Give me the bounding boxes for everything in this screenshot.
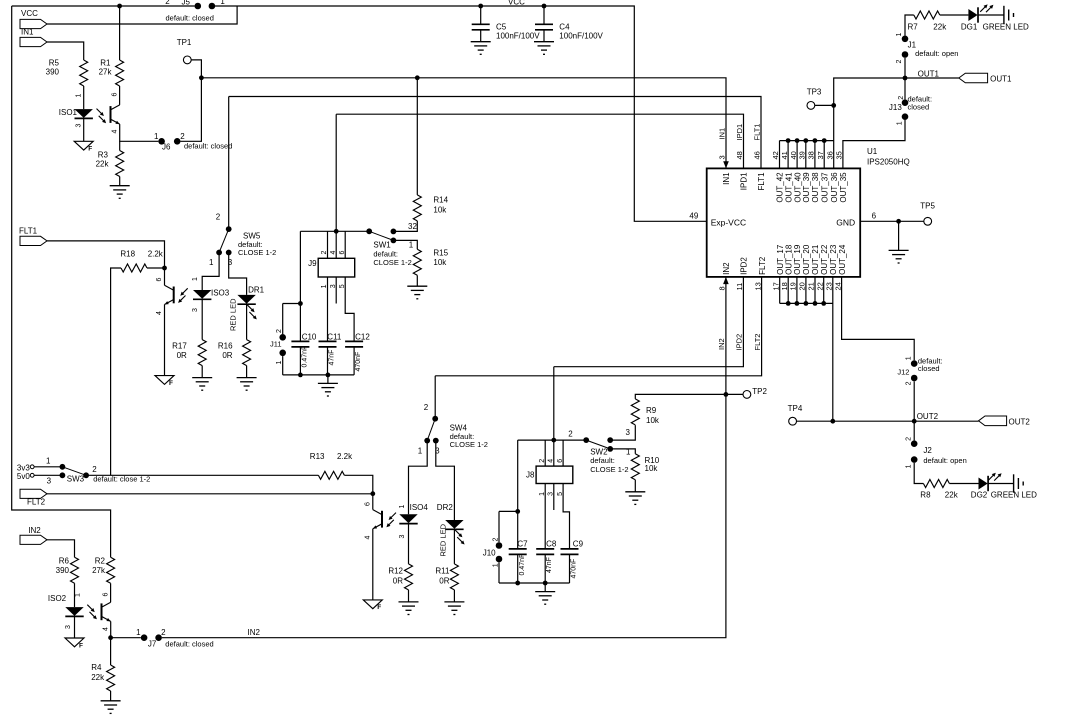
svg-text:OUT_36: OUT_36: [830, 172, 839, 203]
svg-text:4: 4: [365, 536, 372, 540]
svg-text:TP5: TP5: [920, 202, 935, 211]
svg-text:TP4: TP4: [788, 404, 803, 413]
wire pin36 riser to OUT1 net: [834, 78, 905, 168]
resistor R1 27k: [116, 60, 124, 86]
wire SW5 pin 3 to DR1: [229, 253, 247, 295]
wire VCC top rail left segment (to jumper J5 pad 2): [12, 5, 195, 7]
wire J9 pin5 to C12: [345, 277, 354, 341]
wire FLT1 net from SW5 to U1 pin 46: [229, 97, 761, 169]
wire FLT1 to ISO3 collector node: [47, 241, 165, 268]
wire SW5 pin 1 to ISO3 LED: [202, 253, 219, 291]
svg-text:390: 390: [56, 566, 70, 575]
svg-text:default: closed: default: closed: [165, 640, 213, 649]
wire R6 to ISO2 LED: [74, 583, 76, 607]
svg-text:FLT2: FLT2: [753, 334, 762, 351]
jumper J2: [913, 421, 915, 440]
svg-text:OUT1: OUT1: [990, 75, 1012, 84]
svg-text:default: closed: default: closed: [184, 142, 232, 151]
svg-text:C4: C4: [559, 22, 570, 31]
svg-text:RED LED: RED LED: [438, 523, 447, 556]
jumper J1: [902, 36, 909, 43]
svg-text:4: 4: [548, 459, 555, 463]
wire SW3 output to R13: [86, 474, 318, 476]
U1 top OUT bus pins 42-37 stubs: [779, 141, 781, 169]
wire pin23 drop to OUT2 net: [832, 277, 834, 421]
svg-text:J6: J6: [162, 143, 171, 152]
svg-text:21: 21: [807, 282, 816, 290]
capacitor C9 470nF: [561, 549, 579, 555]
svg-text:J10: J10: [483, 549, 496, 558]
svg-text:36: 36: [825, 151, 834, 159]
test point TP2: [743, 391, 751, 399]
svg-text:IPD2: IPD2: [740, 257, 749, 275]
svg-text:2: 2: [165, 0, 170, 6]
svg-text:47nF: 47nF: [546, 557, 553, 573]
svg-text:20: 20: [798, 282, 807, 290]
ISO2 phototransistor: [102, 602, 111, 621]
ground under R17: [201, 366, 203, 378]
svg-text:R13: R13: [310, 452, 325, 461]
wire C10/C11/C12 ground rail: [283, 374, 354, 376]
test point TP3: [807, 102, 815, 110]
svg-text:2: 2: [216, 213, 221, 222]
svg-text:Exp-VCC: Exp-VCC: [711, 218, 746, 228]
connector VCC: [20, 19, 47, 28]
svg-text:OUT_35: OUT_35: [839, 172, 848, 203]
svg-text:10k: 10k: [433, 258, 447, 267]
op-amp ISO1 optocoupler LED: [75, 109, 93, 118]
ground under R10: [634, 480, 636, 492]
svg-text:RED LED: RED LED: [229, 298, 238, 331]
diode DG2 GREEN LED: [979, 476, 989, 491]
svg-text:1: 1: [136, 628, 141, 637]
node J8 pin4 junction: [551, 438, 556, 443]
resistor R15 10k: [413, 249, 421, 275]
svg-text:R7: R7: [908, 22, 919, 31]
wire ISO2 LED cathode to floating ground: [74, 617, 76, 638]
svg-text:OUT_24: OUT_24: [838, 244, 847, 275]
wire IN1 net to U1 pin 3: [201, 78, 726, 163]
svg-text:47nF: 47nF: [328, 350, 335, 366]
svg-text:1: 1: [409, 241, 414, 250]
svg-text:F: F: [377, 604, 381, 611]
resistor R6 390: [71, 557, 79, 583]
svg-text:R12: R12: [388, 567, 403, 576]
svg-text:VCC: VCC: [21, 9, 38, 18]
svg-text:DG1: DG1: [961, 22, 978, 31]
switch SW3: [34, 466, 62, 468]
wire TP3 stub: [815, 104, 834, 106]
svg-text:24: 24: [833, 282, 842, 290]
ground under R12: [408, 590, 410, 602]
svg-text:C9: C9: [573, 539, 584, 548]
svg-text:2: 2: [905, 437, 912, 441]
wire J9 pin6 stub: [344, 231, 346, 258]
svg-text:0R: 0R: [177, 351, 187, 360]
svg-text:22k: 22k: [91, 673, 105, 682]
resistor R8 22k: [923, 480, 949, 488]
svg-text:2.2k: 2.2k: [148, 250, 164, 259]
test point TP1: [183, 56, 191, 64]
svg-text:J12: J12: [897, 367, 909, 376]
wire R1 to ISO1 collector: [119, 86, 121, 105]
svg-text:closed: closed: [908, 103, 930, 112]
svg-text:1: 1: [154, 132, 159, 141]
capacitor C8 47nF: [536, 549, 554, 555]
connector IN1: [20, 37, 47, 46]
svg-text:R14: R14: [433, 195, 448, 204]
svg-text:1: 1: [209, 258, 214, 267]
ISO3 phototransistor: [165, 285, 174, 304]
jumper J10: [499, 510, 518, 512]
svg-text:OUT2: OUT2: [917, 412, 939, 421]
wire R14 top to IN1 net: [416, 78, 418, 195]
svg-text:3: 3: [76, 124, 83, 128]
svg-text:default: closed: default: closed: [166, 14, 214, 23]
node R14/IN1 junction: [415, 75, 420, 80]
svg-text:OUT_23: OUT_23: [829, 244, 838, 275]
svg-text:R2: R2: [95, 557, 106, 566]
svg-text:CLOSE 1-2: CLOSE 1-2: [238, 248, 276, 257]
test point TP5: [924, 217, 932, 225]
wire IPD1 net from J9 pin 4 to U1 pin 48: [336, 114, 743, 168]
svg-text:11: 11: [735, 283, 744, 291]
wire U1 GND pin to TP5: [860, 220, 924, 222]
ground under R11: [453, 590, 455, 602]
wire ISO3 LED cathode to R17: [201, 299, 203, 340]
svg-text:FLT1: FLT1: [19, 227, 38, 236]
svg-text:2.2k: 2.2k: [337, 452, 353, 461]
resistor R12 0R: [405, 564, 413, 590]
resistor R17 0R: [198, 340, 206, 366]
resistor R7 22k: [905, 15, 914, 36]
svg-text:IN2: IN2: [717, 338, 726, 350]
wire J1 pin2 to OUT1 net: [904, 58, 906, 78]
svg-text:390: 390: [46, 68, 60, 77]
svg-text:4: 4: [103, 627, 110, 631]
svg-text:2: 2: [424, 403, 429, 412]
svg-text:R8: R8: [920, 490, 931, 499]
wire J9 pin3 open stub: [335, 277, 337, 304]
ground under C8 rail: [544, 583, 546, 592]
svg-text:1: 1: [905, 356, 912, 360]
wire ISO4 collector: [372, 494, 374, 510]
wire R13 to ISO4 collector node: [344, 475, 372, 493]
svg-text:IN2: IN2: [722, 262, 731, 275]
wire ISO1 LED cathode to floating ground: [83, 119, 85, 142]
svg-text:1: 1: [220, 0, 225, 6]
svg-text:2: 2: [905, 381, 912, 385]
svg-text:default: open: default: open: [915, 49, 958, 58]
svg-text:OUT2: OUT2: [1009, 418, 1031, 427]
svg-text:IPD2: IPD2: [735, 334, 744, 351]
wire SW2 pin1 to R10: [610, 449, 635, 454]
wire FLT2 net from SW4 to U1 pin 13: [435, 277, 761, 376]
wire J9 top bus: [300, 230, 369, 232]
wire DR2 cathode to R11: [453, 529, 455, 564]
svg-text:GND: GND: [836, 218, 855, 228]
svg-text:5v0: 5v0: [17, 472, 30, 481]
svg-text:J2: J2: [923, 446, 932, 455]
wire ISO3 emitter to floating ground: [164, 305, 166, 376]
svg-text:4: 4: [156, 311, 163, 315]
svg-text:TP1: TP1: [177, 38, 192, 47]
switch SW1: [366, 228, 372, 234]
resistor R4 22k: [110, 638, 112, 665]
svg-text:39: 39: [798, 151, 807, 159]
svg-text:6: 6: [103, 593, 110, 597]
node VCC riser from VCC connector: [47, 6, 237, 24]
wire J8 pin1 to C8: [544, 484, 546, 549]
svg-text:OUT_19: OUT_19: [793, 244, 802, 275]
node IN2/TP2 junction: [724, 392, 729, 397]
svg-text:100nF/100V: 100nF/100V: [559, 31, 603, 40]
svg-text:49: 49: [689, 212, 698, 221]
svg-text:SW1: SW1: [373, 241, 391, 250]
wire TP1 stub: [191, 60, 201, 78]
svg-text:GREEN LED: GREEN LED: [983, 22, 1029, 31]
ISO4 phototransistor: [373, 510, 382, 529]
svg-text:J9: J9: [308, 259, 317, 268]
svg-text:1: 1: [418, 447, 423, 456]
resistor R18 2.2k: [147, 267, 165, 269]
svg-text:41: 41: [780, 151, 789, 159]
svg-text:SW3: SW3: [67, 475, 85, 484]
svg-text:C5: C5: [496, 22, 507, 31]
svg-text:37: 37: [816, 151, 825, 159]
svg-text:2: 2: [539, 459, 546, 463]
svg-text:IN1: IN1: [722, 172, 731, 185]
op-amp ISO3 optocoupler LED: [193, 290, 211, 299]
svg-text:0.47nF: 0.47nF: [519, 554, 526, 576]
svg-text:OUT_20: OUT_20: [802, 244, 811, 275]
svg-text:F: F: [88, 146, 92, 153]
svg-text:0.47nF: 0.47nF: [302, 346, 309, 368]
svg-text:3: 3: [47, 476, 52, 485]
diode DG1 GREEN LED: [968, 7, 978, 22]
svg-text:C7: C7: [517, 539, 528, 548]
wire IN1 connector to R5: [47, 42, 84, 60]
svg-text:IN2: IN2: [248, 628, 261, 637]
svg-text:IPS2050HQ: IPS2050HQ: [867, 158, 910, 167]
svg-text:100nF/100V: 100nF/100V: [496, 31, 540, 40]
svg-text:35: 35: [835, 151, 844, 159]
svg-text:OUT_38: OUT_38: [811, 172, 820, 203]
wire OUT1 net to connector: [905, 77, 959, 79]
svg-text:32: 32: [408, 222, 417, 231]
svg-text:OUT_41: OUT_41: [784, 172, 793, 203]
svg-text:FLT2: FLT2: [27, 498, 46, 507]
svg-text:1: 1: [192, 277, 199, 281]
ground under R15: [416, 275, 418, 286]
svg-text:22: 22: [815, 282, 824, 290]
svg-text:2: 2: [321, 251, 328, 255]
connector FLT2: [20, 489, 47, 498]
resistor R14 10k: [413, 195, 421, 221]
svg-text:10k: 10k: [433, 205, 447, 214]
svg-text:FLT1: FLT1: [757, 172, 766, 191]
svg-text:J8: J8: [526, 470, 535, 479]
ground under C11 rail: [327, 375, 329, 384]
svg-text:ISO3: ISO3: [211, 289, 230, 298]
node 5v0 input: [30, 473, 34, 477]
svg-text:C12: C12: [355, 332, 370, 341]
ground under R16: [246, 366, 248, 378]
resistor R5 390: [80, 60, 88, 86]
svg-text:3: 3: [718, 155, 727, 159]
svg-text:OUT1: OUT1: [918, 69, 940, 78]
switch SW5: [228, 97, 230, 230]
wire pin24 to J12: [842, 277, 915, 360]
svg-text:470nF: 470nF: [355, 352, 362, 372]
svg-text:8: 8: [718, 286, 727, 290]
svg-text:2: 2: [92, 465, 97, 474]
svg-text:1: 1: [905, 464, 912, 468]
svg-text:R16: R16: [218, 341, 233, 350]
svg-text:F: F: [79, 642, 83, 649]
wire SW4 pin3 to DR2: [436, 441, 455, 520]
wire DG1 to chassis ground: [978, 14, 1004, 16]
svg-text:3: 3: [192, 308, 199, 312]
svg-text:1: 1: [76, 94, 83, 98]
svg-text:10k: 10k: [646, 416, 660, 425]
wire J9 pin4 riser: [335, 114, 337, 258]
svg-text:ISO1: ISO1: [59, 108, 78, 117]
node OUT2 column junction: [912, 419, 917, 424]
svg-text:OUT_22: OUT_22: [820, 244, 829, 275]
jumper J12: [911, 360, 918, 367]
svg-text:IPD1: IPD1: [735, 124, 744, 141]
svg-text:6: 6: [339, 251, 346, 255]
resistor R13 2.2k: [318, 471, 344, 479]
svg-text:0R: 0R: [393, 576, 403, 585]
node C5 junction: [478, 4, 483, 9]
wire IPD2 net from J8 to U1 pin 11: [554, 277, 744, 367]
ground under R4: [110, 691, 112, 701]
svg-text:22k: 22k: [945, 490, 959, 499]
svg-text:VCC: VCC: [508, 0, 525, 7]
wire SW4 pin1 to ISO4 LED: [409, 441, 428, 515]
op-amp U1 IPS2050HQ body: [707, 168, 861, 277]
svg-text:OUT_39: OUT_39: [802, 172, 811, 203]
node TP1/IN1 net junction: [199, 75, 204, 80]
svg-text:6: 6: [557, 459, 564, 463]
svg-text:22k: 22k: [933, 22, 947, 31]
U1 bottom OUT bus stubs 17-22: [779, 277, 781, 304]
ground floating under ISO4: [363, 600, 382, 609]
wire U1 bottom OUT bus: [780, 302, 833, 304]
wire J9 pin1 to C11: [327, 277, 329, 341]
wire J13 pin2 up to OUT1 node: [904, 78, 906, 99]
svg-text:R11: R11: [435, 567, 450, 576]
svg-text:default: open: default: open: [923, 456, 966, 465]
svg-text:R15: R15: [433, 249, 448, 258]
svg-text:R5: R5: [49, 59, 60, 68]
wire IN2 net U1 pin 8 drop: [162, 277, 726, 638]
wire DG2 to chassis ground: [988, 483, 1013, 485]
wire J8 top bus: [518, 439, 587, 441]
svg-text:1: 1: [896, 33, 903, 37]
wire IPD2 drop to J8 pin 4: [553, 367, 555, 466]
jumper J11: [283, 303, 301, 305]
svg-text:0R: 0R: [222, 351, 232, 360]
node R1 top junction on VCC rail: [117, 4, 122, 9]
wire J8 pin2 stub: [544, 440, 546, 466]
op-amp ISO2 optocoupler LED: [65, 607, 83, 616]
node C4 junction: [542, 4, 547, 9]
svg-text:4: 4: [330, 251, 337, 255]
wire J7 pin1 stub: [111, 637, 141, 639]
svg-text:4: 4: [112, 130, 119, 134]
ISO1 phototransistor: [111, 105, 120, 124]
svg-text:U1: U1: [867, 147, 878, 156]
svg-text:FLT2: FLT2: [758, 256, 767, 275]
svg-text:DR1: DR1: [248, 285, 265, 294]
svg-text:1: 1: [493, 563, 500, 567]
svg-text:1: 1: [46, 457, 51, 466]
svg-text:1: 1: [74, 593, 81, 597]
svg-text:C8: C8: [546, 539, 557, 548]
wire J2 pin1 to R8: [914, 463, 923, 484]
svg-text:2: 2: [568, 430, 573, 439]
wire VCC rail to R1: [119, 6, 121, 60]
svg-text:23: 23: [825, 282, 834, 290]
resistor R2 27k: [107, 557, 115, 583]
svg-text:6: 6: [872, 212, 877, 221]
wire ISO4 LED cathode to R12: [408, 523, 410, 564]
svg-text:R18: R18: [120, 250, 135, 259]
svg-text:1: 1: [276, 361, 283, 365]
svg-text:3: 3: [65, 625, 72, 629]
svg-text:IN1: IN1: [21, 28, 34, 37]
svg-text:R4: R4: [91, 663, 102, 672]
node 3v3 input: [30, 465, 34, 469]
diode DR2 RED LED: [445, 520, 463, 529]
svg-text:10k: 10k: [645, 464, 659, 473]
svg-text:2: 2: [180, 132, 185, 141]
wire J12 pin2 to OUT2: [913, 381, 915, 421]
node J11 tap junction: [298, 301, 303, 306]
ground floating under ISO3: [155, 376, 174, 385]
svg-text:2: 2: [161, 628, 166, 637]
switch SW2: [583, 437, 589, 443]
resistor R11 0R: [450, 564, 458, 590]
svg-text:OUT_18: OUT_18: [784, 244, 793, 275]
resistor R9 10k: [631, 399, 639, 425]
svg-text:1: 1: [896, 121, 903, 125]
capacitor C7 0.47nF: [509, 549, 527, 555]
svg-text:18: 18: [780, 282, 789, 290]
jumper J7: [141, 634, 148, 641]
svg-text:FLT1: FLT1: [752, 124, 761, 141]
svg-text:6: 6: [112, 93, 119, 97]
capacitor C12 470nF: [345, 341, 363, 347]
node TP3 junction: [831, 103, 836, 108]
wire TP2 stub: [726, 393, 743, 395]
resistor R16 0R: [243, 340, 251, 366]
node J10 tap junction: [515, 509, 520, 514]
jumper J13: [902, 99, 909, 106]
svg-text:DG2: DG2: [971, 490, 988, 499]
svg-text:22k: 22k: [96, 160, 110, 169]
wire DR1 cathode to R16: [246, 304, 248, 340]
wire ISO2 emitter to J7 node: [110, 621, 112, 637]
wire ISO4 emitter to floating ground: [372, 529, 374, 600]
op-amp ISO4 optocoupler LED: [399, 514, 417, 523]
wire ISO1 emitter node to J6 pin 1: [120, 124, 159, 141]
node GND junction: [896, 219, 901, 224]
svg-text:J13: J13: [889, 103, 902, 112]
